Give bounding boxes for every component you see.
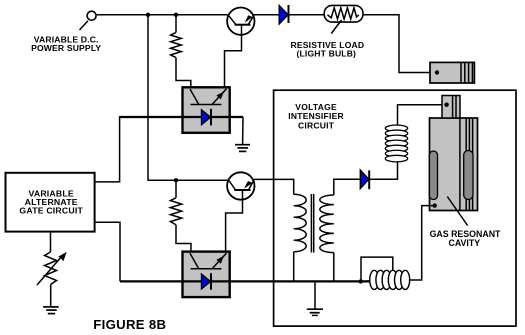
resistor R1 xyxy=(171,15,191,88)
svg-text:GATE CIRCUIT: GATE CIRCUIT xyxy=(19,206,83,216)
terminal circle (variable D.C. power supply) xyxy=(87,11,96,20)
svg-text:CIRCUIT: CIRCUIT xyxy=(298,121,335,131)
leader line to cavity label xyxy=(447,197,467,226)
wire into choke left xyxy=(361,280,371,282)
choke bypass tap xyxy=(361,257,393,281)
opto/SCR box U1 xyxy=(183,87,230,133)
wire through U1 (anode-cathode line) xyxy=(119,116,243,118)
wire D2 to coil L1 xyxy=(369,161,397,180)
transistor Q1 xyxy=(227,8,254,35)
node dot choke junction xyxy=(359,279,363,283)
wire Q1 emitter to box1 xyxy=(225,25,242,88)
gas resonant cavity body xyxy=(429,118,477,211)
ground G2 (center tap) xyxy=(307,281,323,315)
resistor R2 xyxy=(170,180,191,252)
voltage intensifier circuit box xyxy=(274,90,516,326)
rheostat (variable resistor) xyxy=(37,232,67,307)
wire Q2 collector to transformer primary xyxy=(254,179,294,194)
resistive load (light bulb) xyxy=(324,5,363,33)
terminal tick xyxy=(80,21,89,30)
transformer core xyxy=(310,194,312,253)
transformer T1 primary xyxy=(294,194,307,252)
wire Q2 emitter to box2 xyxy=(226,190,243,253)
wire through U2 to transformer bottom xyxy=(120,280,371,282)
diode D2 xyxy=(360,170,369,189)
variable alternate gate circuit box xyxy=(6,173,95,232)
ground G1 xyxy=(235,117,250,151)
opto/SCR box U2 xyxy=(183,252,230,298)
svg-text:(LIGHT BULB): (LIGHT BULB) xyxy=(297,48,357,58)
node dot xyxy=(174,178,178,182)
node dot xyxy=(146,13,150,17)
long vertical wire from top rail xyxy=(148,15,228,181)
wire gate box lower output xyxy=(95,222,120,281)
diode in U2 xyxy=(202,273,212,290)
secondary bottom lead xyxy=(333,253,335,282)
diode in U1 xyxy=(202,109,212,126)
svg-text:FIGURE 8B: FIGURE 8B xyxy=(93,317,166,332)
wire Q1 to D1 xyxy=(254,14,279,16)
wire bulb to connector xyxy=(363,15,437,73)
ground G3 xyxy=(43,307,59,314)
node dot xyxy=(174,13,178,17)
wire choke to cavity xyxy=(409,206,435,280)
primary bottom lead xyxy=(293,252,295,282)
cavity plug xyxy=(442,96,460,119)
transformer T1 secondary xyxy=(320,195,334,253)
wire L1 top to plug xyxy=(398,105,447,126)
inductor L1 (vertical coil) xyxy=(385,125,407,162)
inductor L2 (horizontal choke) xyxy=(370,270,410,289)
wire D1 to bulb xyxy=(289,14,325,16)
secondary top lead to diode D2 xyxy=(334,179,361,195)
svg-text:CAVITY: CAVITY xyxy=(448,238,480,248)
wire top rail xyxy=(96,14,228,16)
diode D1 xyxy=(279,5,288,24)
connector block top right xyxy=(430,62,474,83)
wire gate box upper output xyxy=(95,117,120,182)
svg-text:POWER SUPPLY: POWER SUPPLY xyxy=(31,43,101,53)
transistor Q2 xyxy=(227,172,254,199)
